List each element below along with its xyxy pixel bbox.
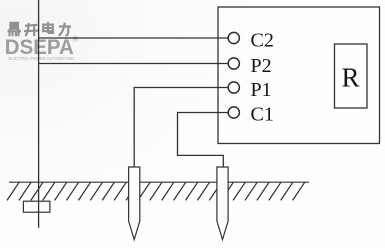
wire P1 <box>134 88 231 168</box>
logo watermark: Chinese characters 鼎升电力 (drawn strokes) <box>8 22 72 36</box>
char 鼎 <box>8 23 22 36</box>
svg-text:R: R <box>342 62 360 92</box>
char 升 <box>24 23 38 36</box>
terminal P1 <box>228 82 239 93</box>
svg-text:ELECTRIC POWER AUTOMATION: ELECTRIC POWER AUTOMATION <box>9 56 75 62</box>
svg-text:C2: C2 <box>251 30 274 52</box>
terminal C1 <box>228 107 239 118</box>
char 电 <box>43 22 53 33</box>
svg-text:P2: P2 <box>251 55 272 77</box>
wire: vertical lead to tested earth electrode <box>38 0 40 228</box>
current spike electrode (right) <box>217 167 228 240</box>
resistor R box <box>335 44 368 108</box>
svg-text:DSEPA: DSEPA <box>5 36 74 59</box>
terminal P2 <box>228 58 239 69</box>
wire C1 <box>178 113 232 168</box>
terminal C2 <box>228 32 239 43</box>
svg-text:P1: P1 <box>251 79 272 101</box>
wire P2 horizontal <box>38 63 231 65</box>
svg-text:C1: C1 <box>251 103 274 125</box>
ground line <box>9 181 309 183</box>
earth electrode under test (left block) <box>23 201 50 212</box>
ground hatching <box>7 182 305 200</box>
instrument box <box>218 7 380 144</box>
potential spike electrode (middle) <box>129 167 140 240</box>
char 力 <box>59 23 71 36</box>
wire C2 horizontal <box>38 37 231 39</box>
